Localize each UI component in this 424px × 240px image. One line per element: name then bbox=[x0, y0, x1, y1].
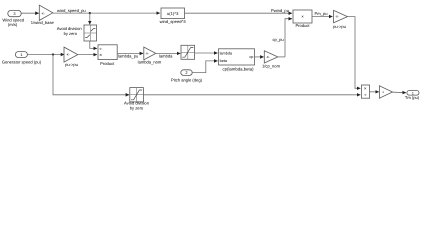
wire generator branch down and right to saturation2 bbox=[53, 55, 129, 95]
svg-text:wind_speed^3: wind_speed^3 bbox=[160, 19, 187, 24]
svg-text:Product: Product bbox=[100, 61, 115, 66]
svg-text:Generator speed (pu): Generator speed (pu) bbox=[2, 59, 42, 64]
svg-text:cp: cp bbox=[249, 55, 253, 59]
svg-text:-K-: -K- bbox=[41, 11, 45, 15]
wire saturation down then right into Product1 top bbox=[90, 41, 97, 48]
wire cp_pu up into Product2 bottom bbox=[285, 19, 292, 57]
wire gain to Product1 bottom input bbox=[78, 54, 98, 56]
gain -1 bbox=[380, 86, 393, 98]
product Product1 (divide) bbox=[98, 45, 117, 66]
gain 1/wind_base bbox=[31, 5, 55, 25]
svg-text:1: 1 bbox=[20, 52, 22, 57]
wire gain to outport bbox=[393, 91, 407, 94]
inport 1 Generator speed (pu) bbox=[2, 52, 42, 65]
svg-text:by zero: by zero bbox=[64, 31, 78, 36]
svg-text:÷: ÷ bbox=[364, 93, 367, 98]
svg-text:Tm (pu): Tm (pu) bbox=[405, 95, 420, 100]
wire cp out to gain 1/cp_nom bbox=[255, 56, 264, 58]
node junction wind_speed_pu bbox=[89, 12, 91, 14]
svg-text:1/wind_base: 1/wind_base bbox=[31, 20, 55, 25]
wire lambda bbox=[156, 52, 181, 54]
wire gain up (start of cp_pu) bbox=[278, 56, 285, 58]
svg-text:×: × bbox=[99, 54, 102, 59]
svg-text:beta: beta bbox=[220, 59, 228, 63]
inport 3 Wind speed (m/s) bbox=[2, 10, 24, 27]
wire gain right then down to Divide top input bbox=[348, 17, 361, 89]
wire inport3 to gain U1 bbox=[21, 12, 39, 14]
svg-text:u(1)^3: u(1)^3 bbox=[167, 11, 179, 16]
wire branch down to saturation bbox=[89, 13, 91, 24]
inport 2 Pitch angle (deg) bbox=[171, 70, 203, 83]
svg-text:-K-: -K- bbox=[335, 15, 339, 19]
svg-text:-K-: -K- bbox=[266, 55, 270, 59]
svg-text:pu->pu: pu->pu bbox=[333, 24, 346, 29]
svg-text:Product: Product bbox=[295, 23, 310, 28]
wire lambda_pu bbox=[117, 52, 143, 54]
wire saturation to cp fcn lambda input bbox=[195, 52, 218, 54]
svg-text:×: × bbox=[364, 86, 367, 91]
wire Divide to gain bbox=[370, 91, 379, 93]
wire Pwind_pu bbox=[185, 12, 293, 14]
svg-text:(m/s): (m/s) bbox=[8, 22, 18, 27]
fcn u(1)^3 wind_speed^3 bbox=[160, 8, 187, 24]
svg-text:÷: ÷ bbox=[99, 47, 102, 52]
gain 1/cp_nom bbox=[262, 51, 281, 69]
wire wind_speed_pu bbox=[53, 12, 160, 14]
svg-text:lambda_nom: lambda_nom bbox=[138, 60, 162, 65]
outport 1 Tm (pu) bbox=[405, 91, 420, 100]
gain pu->pu (bottom left) bbox=[64, 47, 78, 67]
saturation lambda path bbox=[181, 45, 195, 59]
svg-text:cp_pu: cp_pu bbox=[273, 37, 284, 42]
svg-text:-K-: -K- bbox=[145, 52, 149, 56]
fcn cp(lambda,beta) bbox=[219, 49, 255, 72]
svg-text:lambda: lambda bbox=[220, 51, 233, 55]
svg-text:Pm_pu: Pm_pu bbox=[315, 11, 328, 16]
svg-text:lambda_pu: lambda_pu bbox=[118, 53, 138, 58]
svg-text:×: × bbox=[301, 14, 304, 19]
svg-text:cp(lambda,beta): cp(lambda,beta) bbox=[222, 66, 254, 71]
svg-text:by zero: by zero bbox=[130, 105, 144, 110]
product Product2 bbox=[293, 10, 312, 28]
svg-text:-K-: -K- bbox=[66, 53, 70, 57]
saturation Avoid division by zero (rotated) bbox=[57, 25, 97, 41]
svg-text:lambda: lambda bbox=[159, 53, 173, 58]
wire inport1 to gain pu->pu (bottom) bbox=[27, 54, 64, 56]
svg-text:2: 2 bbox=[185, 70, 187, 75]
gain pu->pu (top right) bbox=[333, 10, 347, 29]
svg-text:Pitch angle (deg): Pitch angle (deg) bbox=[171, 77, 203, 82]
wire pitch to beta input bbox=[192, 61, 217, 73]
gain lambda_nom bbox=[138, 47, 162, 65]
wire Pm_pu bbox=[312, 16, 333, 18]
wire saturation2 to Divide bottom input bbox=[143, 94, 360, 96]
node junction generator speed bbox=[52, 53, 54, 55]
svg-text:3: 3 bbox=[13, 11, 15, 16]
svg-text:1/cp_nom: 1/cp_nom bbox=[262, 64, 281, 69]
svg-text:pu->pu: pu->pu bbox=[65, 62, 78, 67]
svg-text:wind_speed_pu: wind_speed_pu bbox=[57, 8, 86, 13]
svg-text:Pwind_pu: Pwind_pu bbox=[271, 8, 289, 13]
saturation Avoid division by zero2 bbox=[124, 88, 150, 111]
product Divide (Tm) bbox=[361, 85, 369, 98]
